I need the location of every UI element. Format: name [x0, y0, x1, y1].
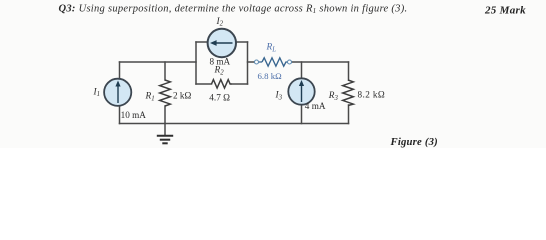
wire ground stub [164, 124, 166, 136]
svg-text:2 kΩ: 2 kΩ [173, 91, 191, 101]
wire R3 branch upper stub [348, 62, 350, 80]
svg-text:4 mA: 4 mA [305, 101, 326, 111]
resistor RL (blue, with terminals) [259, 58, 288, 66]
wire RL right terminal to right section [292, 61, 349, 63]
current source I1 [104, 79, 131, 106]
resistor R3 [343, 80, 354, 106]
wire left vertical lower stub [119, 106, 121, 124]
wire bottom horizontal [120, 123, 349, 125]
current source I3 arrow [301, 84, 303, 103]
wire from box to RL left terminal [248, 61, 255, 63]
current source I3 [288, 78, 314, 104]
svg-text:6.8 kΩ: 6.8 kΩ [258, 71, 283, 81]
svg-text:8.2 kΩ: 8.2 kΩ [358, 89, 386, 99]
wire R3 branch lower stub [348, 105, 350, 124]
svg-text:10 mA: 10 mA [121, 110, 147, 120]
current source I1 arrow [117, 84, 119, 103]
wire box top rail right segment [237, 41, 248, 43]
resistor R2 [212, 80, 232, 88]
wire R1 branch upper stub [164, 62, 166, 80]
svg-text:8 mA: 8 mA [210, 56, 231, 66]
ground [157, 136, 173, 144]
current source I2 [208, 29, 236, 57]
RL left terminal [255, 60, 259, 64]
svg-text:4.7 Ω: 4.7 Ω [209, 93, 230, 103]
wire box bottom rail left segment [196, 83, 212, 85]
svg-text:Q3: Using superposition, deter: Q3: Using superposition, determine the v… [59, 3, 408, 15]
wire I3 branch lower stub [301, 105, 303, 124]
RL right terminal [288, 60, 292, 64]
wire I3 branch upper stub [301, 62, 303, 79]
wire box bottom rail right segment [232, 83, 248, 85]
wire top-left horizontal (node A) [120, 61, 197, 63]
wire box right edge [247, 42, 249, 84]
svg-text:25 Mark: 25 Mark [484, 5, 526, 17]
wire box left edge [195, 42, 197, 84]
resistor R1 [160, 80, 171, 106]
current source I2 arrow [214, 42, 233, 44]
wire R1 branch lower stub [164, 106, 166, 124]
wire box top rail left segment [196, 41, 208, 43]
wire left vertical upper stub [119, 62, 121, 79]
svg-text:Figure (3): Figure (3) [390, 136, 438, 148]
